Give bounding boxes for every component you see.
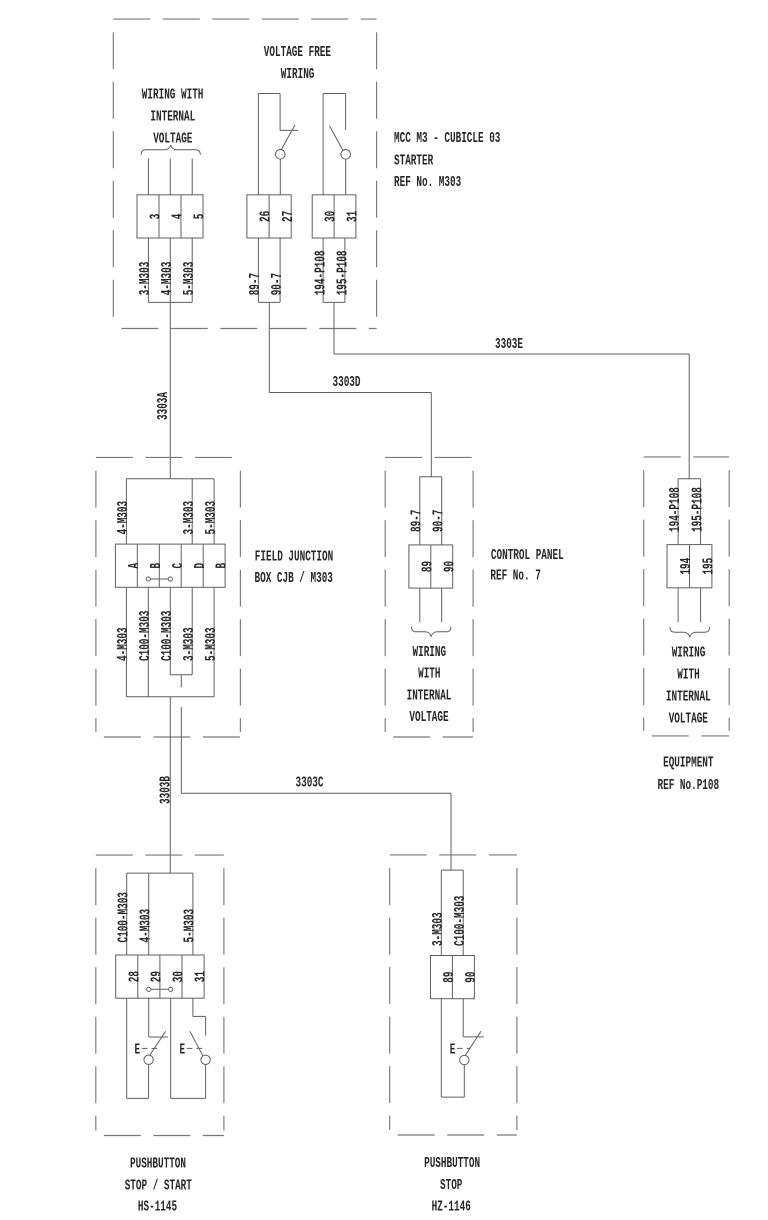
- wire C100-M303 below terminal B: [138, 587, 154, 697]
- svg-text:VOLTAGE: VOLTAGE: [153, 132, 192, 148]
- label PUSHBUTTON STOP / START HS-1145: [125, 1157, 192, 1216]
- cable 3303A splice node: [126, 478, 214, 480]
- label FIELD JUNCTION BOX CJB / M303: [255, 550, 334, 588]
- control panel terminal block 89-90: [409, 545, 458, 588]
- equipment internal wire from 194: [677, 588, 679, 622]
- wire 4-M303 below terminal A: [116, 587, 132, 697]
- wire 194-P108 into terminal 194: [668, 479, 684, 545]
- svg-text:EQUIPMENT: EQUIPMENT: [663, 756, 714, 772]
- svg-text:CONTROL PANEL: CONTROL PANEL: [491, 548, 564, 564]
- svg-text:194-P108: 194-P108: [668, 487, 684, 532]
- wire 3-M303 below terminal D: [182, 587, 198, 674]
- wire into terminal 5: [191, 159, 193, 195]
- terminal block 26-27 (starter): [247, 195, 297, 238]
- svg-text:WIRING: WIRING: [672, 646, 706, 662]
- svg-text:30: 30: [324, 211, 340, 222]
- svg-text:89-7: 89-7: [248, 273, 264, 295]
- wire C100-M303 below terminal C: [160, 587, 176, 674]
- svg-text:C100-M303: C100-M303: [117, 892, 133, 942]
- svg-text:HS-1145: HS-1145: [138, 1200, 177, 1216]
- label WIRING WITH INTERNAL VOLTAGE (starter): [142, 88, 204, 148]
- label WIRING WITH INTERNAL VOLTAGE (equipment): [666, 646, 711, 728]
- svg-text:VOLTAGE: VOLTAGE: [409, 710, 448, 726]
- cable 3303B: [159, 697, 175, 873]
- svg-text:WITH: WITH: [677, 668, 699, 684]
- jumper link terminals B-C: [146, 577, 172, 581]
- wire 3-M303: [147, 238, 149, 302]
- svg-text:STOP / START: STOP / START: [125, 1178, 192, 1194]
- cable gather node for 3303A: [148, 301, 192, 303]
- svg-text:C100-M303: C100-M303: [453, 896, 469, 946]
- svg-text:FIELD JUNCTION: FIELD JUNCTION: [255, 550, 333, 566]
- actuator label E (stop HZ): [450, 1042, 471, 1058]
- panel internal wire from 90: [441, 589, 443, 623]
- equipment terminal block 194-195: [667, 545, 718, 588]
- actuator label E (start): [180, 1042, 203, 1058]
- svg-text:31: 31: [194, 971, 210, 982]
- label EQUIPMENT REF No.P108: [658, 756, 720, 795]
- cable 3303C stub: [180, 675, 182, 688]
- brace under equipment wires: [670, 627, 710, 637]
- svg-text:INTERNAL: INTERNAL: [407, 689, 452, 705]
- svg-text:C: C: [171, 563, 187, 569]
- svg-text:3-M303: 3-M303: [138, 262, 154, 296]
- label CONTROL PANEL REF No. 7: [490, 548, 563, 585]
- wire into terminal 3: [147, 159, 149, 195]
- svg-text:WITH: WITH: [418, 667, 440, 683]
- svg-text:C100-M303: C100-M303: [138, 611, 154, 661]
- svg-text:194-P108: 194-P108: [314, 250, 330, 295]
- cable 3303E splice node: [678, 478, 701, 480]
- cable gather node for 3303B: [126, 696, 214, 698]
- svg-text:3303D: 3303D: [333, 375, 361, 391]
- svg-text:STOP: STOP: [440, 1178, 462, 1194]
- field junction box CJB/M303 dashed boundary: [96, 457, 241, 737]
- wire 5-M303 into terminal 31: [183, 873, 199, 955]
- svg-text:31: 31: [346, 211, 362, 222]
- svg-text:28: 28: [127, 971, 143, 982]
- starter NC contact (terminals 26-27): [258, 94, 298, 195]
- svg-text:E: E: [135, 1042, 141, 1058]
- svg-text:89: 89: [442, 972, 458, 983]
- svg-text:WIRING: WIRING: [413, 645, 447, 661]
- svg-text:5-M303: 5-M303: [204, 501, 220, 535]
- svg-text:C100-M303: C100-M303: [160, 611, 176, 661]
- svg-text:3: 3: [149, 214, 165, 220]
- svg-text:PUSHBUTTON: PUSHBUTTON: [424, 1156, 480, 1172]
- svg-text:MCC M3 - CUBICLE 03: MCC M3 - CUBICLE 03: [394, 131, 500, 147]
- wire C100-M303 into terminal 28: [117, 873, 133, 955]
- svg-text:D: D: [193, 563, 209, 569]
- svg-text:REF No. M303: REF No. M303: [394, 175, 461, 191]
- svg-text:27: 27: [281, 211, 297, 222]
- svg-text:4-M303: 4-M303: [160, 262, 176, 296]
- svg-text:3303A: 3303A: [156, 392, 172, 420]
- svg-text:4-M303: 4-M303: [116, 627, 132, 661]
- panel internal wire from 89: [419, 589, 421, 623]
- svg-text:90: 90: [464, 972, 480, 983]
- cable 3303E: [334, 302, 689, 478]
- svg-text:E: E: [450, 1042, 456, 1058]
- svg-text:30: 30: [172, 971, 188, 982]
- brace over internal-voltage wires: [141, 145, 200, 155]
- cable 3303D splice node: [420, 476, 442, 478]
- wire 89-7 into terminal 89: [410, 477, 426, 545]
- cable 3303C: [181, 707, 451, 870]
- wire C100-M303 into terminal 90: [453, 870, 469, 955]
- actuator label E (stop): [135, 1042, 158, 1058]
- cable 3303B splice node: [127, 872, 193, 874]
- svg-text:3303B: 3303B: [159, 776, 175, 804]
- svg-text:4-M303: 4-M303: [139, 909, 155, 943]
- pushbutton HS-1145 dashed boundary: [96, 855, 224, 1135]
- svg-text:3303E: 3303E: [495, 337, 523, 353]
- svg-text:195-P108: 195-P108: [690, 487, 706, 532]
- svg-text:VOLTAGE: VOLTAGE: [669, 712, 708, 728]
- cable 3303C splice node: [441, 869, 463, 871]
- junction box terminal strip A-B-C-D-B: [115, 544, 230, 587]
- wire 195-P108: [344, 238, 346, 302]
- cable gather node for 3303C: [170, 674, 192, 676]
- svg-text:3-M303: 3-M303: [431, 912, 447, 946]
- brace under panel wires: [412, 627, 451, 637]
- svg-text:VOLTAGE FREE: VOLTAGE FREE: [264, 45, 331, 61]
- control panel dashed boundary: [385, 457, 473, 737]
- svg-text:89-7: 89-7: [410, 510, 426, 532]
- wire 4-M303: [169, 238, 171, 302]
- cable gather node for 3303D: [258, 301, 280, 303]
- svg-text:WIRING WITH: WIRING WITH: [142, 88, 204, 104]
- wire 89-7: [257, 238, 259, 302]
- svg-text:INTERNAL: INTERNAL: [666, 690, 711, 706]
- svg-text:B: B: [215, 563, 231, 569]
- starter NO contact (terminals 30-31): [323, 94, 350, 195]
- svg-text:194: 194: [679, 558, 695, 575]
- svg-text:PUSHBUTTON: PUSHBUTTON: [130, 1157, 186, 1173]
- MCC M3 cubicle 03 dashed enclosure boundary: [113, 19, 376, 328]
- label MCC M3 - CUBICLE 03 STARTER REF No. M303: [394, 131, 500, 191]
- terminal block 3-4-5 (starter): [137, 195, 209, 238]
- svg-text:29: 29: [150, 971, 166, 982]
- wire 3-M303 into terminal 89: [431, 870, 447, 955]
- svg-text:90-7: 90-7: [432, 510, 448, 532]
- svg-text:BOX CJB / M303: BOX CJB / M303: [255, 571, 333, 587]
- start pushbutton NO contact (E): [171, 998, 211, 1098]
- svg-text:5: 5: [193, 214, 209, 220]
- label VOLTAGE FREE WIRING: [264, 45, 331, 83]
- equipment internal wire from 195: [700, 588, 702, 622]
- svg-text:INTERNAL: INTERNAL: [150, 110, 195, 126]
- svg-text:5-M303: 5-M303: [182, 262, 198, 296]
- svg-text:195-P108: 195-P108: [335, 250, 351, 295]
- stop pushbutton NC contact (E): [127, 998, 168, 1098]
- label PUSHBUTTON STOP HZ-1146: [424, 1156, 480, 1216]
- wire 4-M303 into terminal A: [116, 479, 132, 544]
- svg-text:3-M303: 3-M303: [182, 627, 198, 661]
- svg-text:5-M303: 5-M303: [204, 627, 220, 661]
- wire 90-7: [279, 238, 281, 302]
- svg-text:89: 89: [420, 561, 436, 572]
- svg-text:195: 195: [702, 558, 718, 575]
- svg-text:STARTER: STARTER: [394, 153, 433, 169]
- terminal block 30-31 (starter): [312, 195, 361, 238]
- wire 5-M303 below terminal B2: [204, 587, 220, 697]
- svg-text:90: 90: [442, 561, 458, 572]
- svg-text:A: A: [127, 563, 143, 569]
- wire 4-M303 into terminal 29: [139, 873, 155, 955]
- svg-text:E: E: [180, 1042, 186, 1058]
- svg-text:90-7: 90-7: [270, 273, 286, 295]
- equipment P108 dashed boundary: [644, 457, 730, 736]
- label WIRING WITH INTERNAL VOLTAGE (panel): [407, 645, 452, 726]
- wire 90-7 into terminal 90: [432, 477, 448, 545]
- svg-text:5-M303: 5-M303: [183, 909, 199, 943]
- wire 194-P108: [322, 238, 324, 302]
- pushbutton HZ-1146 terminal block 89-90: [431, 956, 481, 999]
- stop pushbutton NC contact HZ (E): [441, 999, 484, 1097]
- svg-text:HZ-1146: HZ-1146: [432, 1200, 471, 1216]
- wire 5-M303: [191, 238, 193, 302]
- wire 3-M303 into terminal D: [182, 479, 198, 544]
- svg-text:26: 26: [259, 211, 275, 222]
- svg-text:4-M303: 4-M303: [116, 501, 132, 535]
- svg-text:WIRING: WIRING: [281, 67, 315, 83]
- cable 3303D: [269, 302, 431, 476]
- svg-text:4: 4: [171, 213, 187, 219]
- cable gather node for 3303E: [323, 301, 345, 303]
- wire 5-M303 into terminal B2: [204, 479, 220, 544]
- wire into terminal 4: [169, 159, 171, 195]
- svg-text:B: B: [149, 563, 165, 569]
- svg-text:3303C: 3303C: [296, 775, 324, 791]
- jumper link terminals 29-30: [147, 987, 173, 991]
- wire 195-P108 into terminal 195: [690, 479, 706, 545]
- pushbutton HZ-1146 dashed boundary: [390, 855, 517, 1135]
- svg-text:3-M303: 3-M303: [182, 501, 198, 535]
- svg-text:REF No. 7: REF No. 7: [490, 569, 540, 585]
- cable 3303A: [156, 302, 172, 478]
- svg-text:REF No.P108: REF No.P108: [658, 778, 720, 794]
- pushbutton HS-1145 terminal block 28-31: [116, 955, 210, 998]
